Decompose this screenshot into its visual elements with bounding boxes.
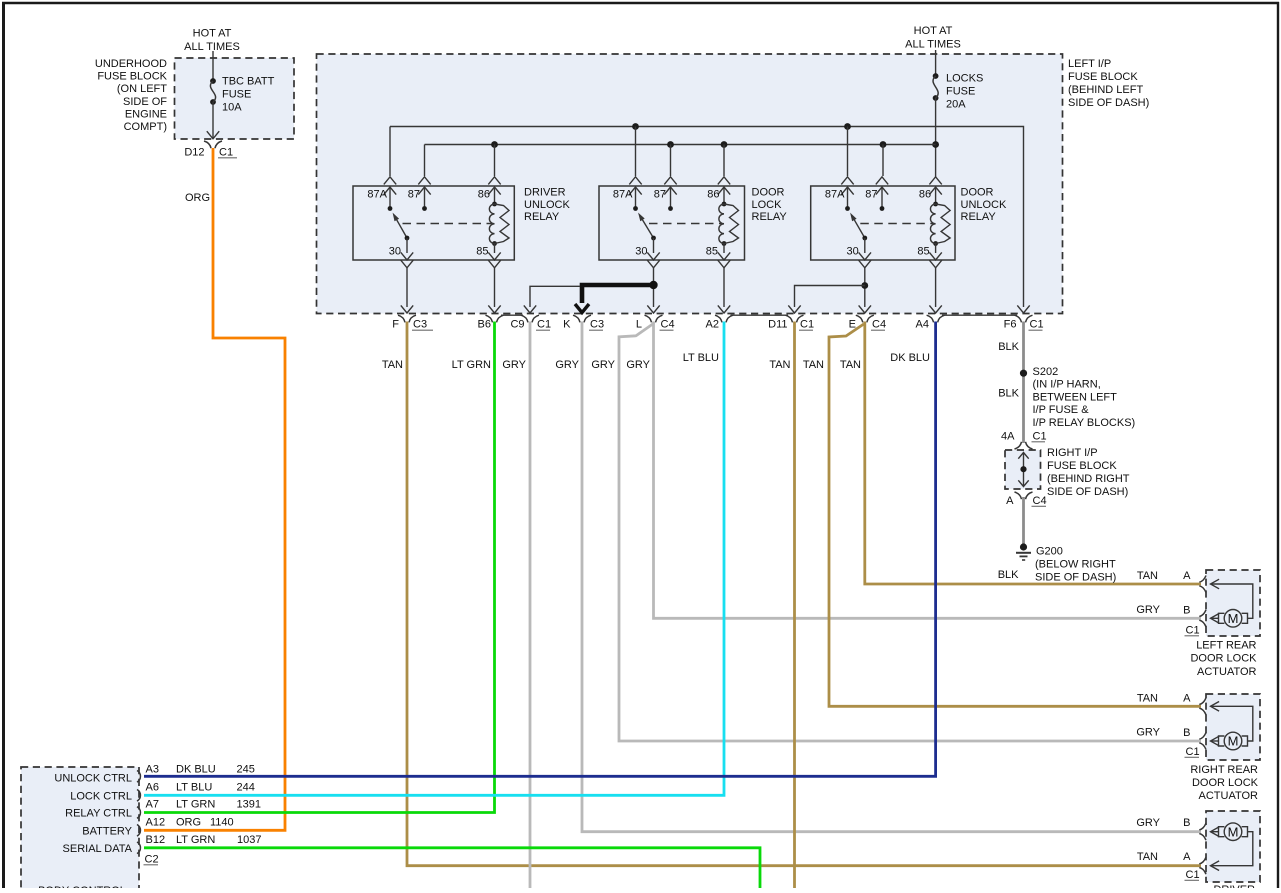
right rear door lock actuator name label [1190,764,1258,802]
svg-text:(BEHIND LEFT: (BEHIND LEFT [1068,84,1143,96]
wire TAN: exit E direct to left rear door lock actuator pin A [865,322,1201,585]
svg-text:GRY: GRY [555,359,579,371]
label: HOT AT ALL TIMES (right) [905,25,961,51]
svg-text:A: A [1183,851,1191,863]
svg-text:GRY: GRY [1136,817,1160,829]
relay K2 DOOR LOCK pin 86 [707,177,730,204]
connector C1 pins B6,C9 (strip) [478,315,552,330]
svg-text:DOOR: DOOR [961,187,994,199]
svg-text:ACTUATOR: ACTUATOR [1199,790,1259,802]
svg-text:FUSE BLOCK: FUSE BLOCK [1068,71,1138,83]
svg-text:A7: A7 [146,799,159,811]
node + wire: B+ rail drop to relay K2 pin 87 [667,141,674,176]
node: 87A bus junction above relay K2 [632,123,639,130]
svg-text:TAN: TAN [1137,851,1158,863]
relay K3 DOOR UNLOCK pin 85 [917,244,941,268]
BCM pin RELAY CTRL A7 [65,799,261,820]
relay K1 DRIVER UNLOCK: box [353,186,514,260]
relay K3 DOOR UNLOCK pin 87 [865,177,888,211]
svg-text:BETWEEN LEFT: BETWEEN LEFT [1033,391,1118,403]
right rear door lock actuator: box [1206,694,1260,760]
relay K2 DOOR LOCK name label [752,187,788,224]
svg-text:TAN: TAN [382,359,403,371]
label: RIGHT I/P FUSE BLOCK (BEHIND RIGHT SIDE OF DASH) [1047,447,1130,498]
right rear door lock actuator motor M [1219,732,1248,750]
left rear door lock actuator connector C1 pin B [1183,604,1206,627]
connector C4 pin A (out of right I/P fuse block) [1006,492,1046,507]
driver actuator label C1 [1185,869,1200,881]
node + wire: B+ rail drop to relay K1 pin 86 [491,141,498,176]
svg-text:B6: B6 [478,319,491,331]
svg-text:K: K [563,319,571,331]
svg-text:SIDE OF DASH): SIDE OF DASH) [1068,97,1149,109]
relay K1 DRIVER UNLOCK pin 87A [367,177,396,211]
svg-text:D11: D11 [768,319,787,331]
svg-text:GRY: GRY [502,359,526,371]
connector C1 pins A4,F6 (strip) [916,315,1044,330]
svg-text:S202: S202 [1033,366,1059,378]
svg-text:DRIVER: DRIVER [524,187,566,199]
svg-text:RELAY: RELAY [961,211,997,223]
svg-text:LOCK: LOCK [752,199,783,211]
svg-text:TAN: TAN [769,359,790,371]
wire BLK: right I/P fuse block to ground G200 [998,497,1024,581]
svg-text:TAN: TAN [1137,570,1158,582]
wire through right I/P fuse block [1018,453,1028,487]
wire LT GRN 1391: exit B6 to BCM RELAY CTRL A7 [144,322,495,813]
svg-text:1140: 1140 [210,817,234,829]
svg-text:DK BLU: DK BLU [890,352,930,364]
left rear door lock actuator name label [1190,640,1257,678]
BCM pin LOCK CTRL A6 [70,782,255,803]
svg-text:C3: C3 [413,319,427,331]
driver door lock actuator: box [1206,811,1260,882]
svg-text:SIDE OF DASH): SIDE OF DASH) [1047,486,1128,498]
svg-text:GRY: GRY [626,359,650,371]
driver actuator wire labels GRY/TAN [1136,817,1160,863]
driver actuator motor M [1219,823,1248,841]
svg-text:A2: A2 [706,319,719,331]
svg-text:F: F [392,319,399,331]
wire: ground rail (87A bus) to connector C1 pin F6 [390,127,1030,314]
wire: battery feed into LOCKS fuse [935,50,937,76]
relay K1 DRIVER UNLOCK coil link (dashed) [403,223,493,225]
wire ORG 1140: underhood fuse D12 to BCM BATTERY A12 [144,148,285,830]
svg-text:C1: C1 [1186,869,1200,881]
svg-text:87: 87 [408,188,420,200]
driver actuator name label (clipped at page bottom) [1213,884,1255,893]
right rear door lock actuator connector C1 pin B [1183,727,1206,750]
svg-text:1391: 1391 [237,799,261,811]
svg-text:ACTUATOR: ACTUATOR [1197,666,1257,678]
label: LEFT I/P FUSE BLOCK (BEHIND LEFT SIDE OF DASH) [1068,58,1149,109]
svg-text:F6: F6 [1004,319,1017,331]
svg-text:FUSE BLOCK: FUSE BLOCK [97,71,167,83]
svg-text:BATTERY: BATTERY [82,826,132,838]
svg-text:86: 86 [919,188,931,200]
svg-text:BLK: BLK [998,569,1019,581]
svg-text:DOOR LOCK: DOOR LOCK [1192,777,1259,789]
label: G200 (BELOW RIGHT SIDE OF DASH) [1035,546,1116,584]
svg-text:85: 85 [917,245,929,257]
svg-text:87A: 87A [825,188,845,200]
relay K3 DOOR UNLOCK: box [811,186,955,260]
svg-text:A3: A3 [146,764,159,776]
svg-text:LT GRN: LT GRN [176,834,215,846]
svg-text:RELAY CTRL: RELAY CTRL [65,808,132,820]
svg-text:D12: D12 [184,147,204,159]
splice S202 [1020,366,1058,378]
svg-text:HOT AT: HOT AT [914,25,953,37]
wire: relay K1 pin 30 to exit F [401,268,413,313]
wire LT GRN 1037: BCM SERIAL DATA B12 (off page bottom) [144,848,760,888]
svg-text:A: A [1183,692,1191,704]
relay K2 DOOR LOCK switch arm (30 to 87A) [638,213,656,241]
wire: fuse output to connector C1 pin D12 [207,102,219,139]
svg-text:C1: C1 [1186,625,1200,637]
label: S202 description [1033,379,1136,429]
underhood fuse block (dashed box) [175,58,295,139]
svg-text:30: 30 [635,245,647,257]
relay K3 DOOR UNLOCK pin 87A [825,177,854,211]
relay K1 DRIVER UNLOCK pin 30 [389,238,413,268]
relay K2 DOOR LOCK coil [719,202,739,246]
svg-text:ORG: ORG [185,192,210,204]
relay K2 DOOR LOCK: box [599,186,745,260]
svg-text:87A: 87A [367,188,387,200]
svg-text:4A: 4A [1001,431,1015,443]
wire DK BLU 245: exit A4 to BCM UNLOCK CTRL A3 [144,322,936,777]
svg-text:20A: 20A [946,99,966,111]
svg-text:FUSE: FUSE [222,89,251,101]
driver actuator connector C1 pin A [1183,851,1206,874]
relay K2 DOOR LOCK pin 30 [635,238,659,268]
node: junction of fuse feed with B+ rail [932,141,939,148]
svg-text:C1: C1 [219,147,233,159]
wire: 87A bus drop to relay K2 pin 87A [635,127,637,177]
svg-text:A: A [1183,570,1191,582]
connector C1 pin D12 [184,141,237,159]
svg-text:C4: C4 [661,319,675,331]
wire LT BLU 244: exit A2 to BCM LOCK CTRL A6 [144,322,724,796]
svg-text:LOCKS: LOCKS [946,73,983,85]
svg-text:BLK: BLK [998,388,1019,400]
svg-text:TAN: TAN [1137,693,1158,705]
relay K1 DRIVER UNLOCK name label [524,187,571,224]
BCM pin UNLOCK CTRL A3 [54,764,254,785]
svg-text:87A: 87A [613,188,633,200]
svg-text:245: 245 [237,764,255,776]
relay K3 DOOR UNLOCK coil [930,202,950,246]
svg-text:UNLOCK CTRL: UNLOCK CTRL [54,773,132,785]
right rear actuator wire labels TAN/GRY [1136,693,1160,739]
svg-text:GRY: GRY [1136,604,1160,616]
connector C3 pin K [563,315,604,330]
svg-text:30: 30 [389,245,401,257]
svg-text:B12: B12 [146,834,166,846]
svg-text:LOCK CTRL: LOCK CTRL [70,791,132,803]
svg-text:G200: G200 [1036,546,1063,558]
svg-text:TAN: TAN [803,359,824,371]
left I/P fuse block (dashed box) [317,54,1063,314]
right rear door lock actuator connector C1 pin A [1183,692,1206,715]
svg-text:RIGHT REAR: RIGHT REAR [1190,764,1258,776]
relay K3 DOOR UNLOCK switch arm (30 to 87A) [850,213,867,241]
svg-text:RELAY: RELAY [752,211,788,223]
svg-text:SERIAL DATA: SERIAL DATA [63,843,133,855]
relay K1 DRIVER UNLOCK pin 87 [408,177,431,211]
wire: relay K2 pin 85 to exit A2 [718,268,730,313]
wire color labels below fuse block [382,352,930,371]
wire: thin branch from exit C9 to thick bar corner [524,286,580,313]
wire: B+ rail drop to relay K1 pin 87 [424,145,426,177]
node + wire: B+ rail drop to relay K3 pin 87 [880,141,887,176]
svg-text:LT GRN: LT GRN [452,359,491,371]
wire: battery feed into TBC BATT fuse [212,51,214,81]
svg-text:(IN I/P HARN,: (IN I/P HARN, [1033,379,1101,391]
wire: branch from K3 pin30 to exit D11 [788,286,865,314]
wire: relay K3 pin 30 to exit E [859,268,871,313]
svg-text:B: B [1183,604,1190,616]
svg-text:A: A [1006,495,1014,507]
svg-text:M: M [1228,734,1239,749]
left rear door lock actuator internal wires [1211,579,1253,623]
svg-text:B: B [1183,817,1190,829]
svg-text:A6: A6 [146,782,159,794]
left rear door lock actuator connector C1 pin A [1183,570,1206,593]
svg-text:I/P RELAY BLOCKS): I/P RELAY BLOCKS) [1033,417,1136,429]
connector C3 pin F [392,315,433,330]
svg-text:RELAY: RELAY [524,211,560,223]
svg-text:M: M [1228,824,1239,839]
svg-text:I/P FUSE &: I/P FUSE & [1033,404,1090,416]
label: HOT AT ALL TIMES (left) [184,28,240,54]
svg-text:244: 244 [237,782,255,794]
svg-text:BLK: BLK [998,341,1019,353]
svg-text:DRIVER: DRIVER [1213,884,1255,888]
svg-text:DK BLU: DK BLU [176,764,216,776]
left rear actuator wire labels TAN/GRY [1136,570,1160,616]
svg-text:ORG: ORG [176,817,201,829]
wire: relay K2 pin 30 to exit L [647,268,659,313]
svg-text:C4: C4 [1033,495,1047,507]
relay K3 DOOR UNLOCK pin 30 [847,238,871,268]
svg-text:DOOR: DOOR [752,187,785,199]
svg-text:C1: C1 [800,319,814,331]
svg-text:86: 86 [478,188,490,200]
svg-text:C1: C1 [537,319,551,331]
svg-text:GRY: GRY [1136,727,1160,739]
svg-text:ALL TIMES: ALL TIMES [905,39,961,51]
label: BLK below S202 [998,388,1019,400]
connector C1 pins A2,D11 (strip) [706,315,815,330]
relay K2 DOOR LOCK pin 87A [613,177,642,211]
svg-text:C1: C1 [1186,746,1200,758]
connector C4 pin E [849,315,886,330]
relay K1 DRIVER UNLOCK pin 85 [476,244,500,268]
svg-text:SIDE OF DASH): SIDE OF DASH) [1035,572,1116,584]
wire: 87A bus drop to relay K1 pin 87A [389,127,391,177]
relay K1 DRIVER UNLOCK coil [489,202,509,246]
driver actuator internal wires [1211,827,1253,871]
svg-text:LT GRN: LT GRN [176,799,215,811]
svg-text:FUSE BLOCK: FUSE BLOCK [1047,460,1117,472]
wire TAN: exit E branch to right rear door lock actuator pin A [829,324,1201,706]
svg-text:87: 87 [865,188,877,200]
svg-text:HOT AT: HOT AT [193,28,232,40]
svg-text:UNLOCK: UNLOCK [524,199,571,211]
svg-text:TBC BATT: TBC BATT [222,76,275,88]
svg-text:TAN: TAN [840,359,861,371]
connector C4 pin L [636,315,675,330]
svg-text:DOOR LOCK: DOOR LOCK [1190,653,1257,665]
svg-text:B: B [1183,727,1190,739]
node: 87A bus junction above relay K3 [844,123,851,130]
svg-text:(ON LEFT: (ON LEFT [117,83,167,95]
svg-text:C3: C3 [590,319,604,331]
connector C1 pin 4A (into right I/P fuse block) [1001,431,1047,450]
svg-text:LEFT REAR: LEFT REAR [1196,640,1256,652]
svg-text:30: 30 [847,245,859,257]
body control module (dashed box, clipped at page bottom) [21,767,139,893]
svg-text:FUSE: FUSE [946,86,975,98]
svg-text:UNLOCK: UNLOCK [961,199,1008,211]
node: thick-bar junction on K2 pin30 wire [649,281,657,289]
fuse: LOCKS FUSE 20A [933,73,984,111]
left rear door lock actuator label C1 [1185,625,1200,637]
BCM connector label C2 [144,854,159,866]
svg-text:LEFT I/P: LEFT I/P [1068,58,1111,70]
wire BLK: exit F6 down to splice S202 [998,322,1023,444]
svg-text:C2: C2 [145,854,159,866]
node + wire: B+ rail drop to relay K2 pin 86 [721,141,728,176]
svg-text:(BELOW RIGHT: (BELOW RIGHT [1035,559,1116,571]
node: branch junction on K3 pin30 wire [861,282,868,289]
left rear door lock actuator: box [1206,570,1260,636]
svg-text:RIGHT I/P: RIGHT I/P [1047,447,1098,459]
relay K1 DRIVER UNLOCK pin 86 [478,177,501,204]
BCM pin SERIAL DATA B12 [63,834,262,855]
relay K3 DOOR UNLOCK coil link (dashed) [860,223,933,225]
fuse: TBC BATT FUSE 10A [210,76,275,114]
wire GRY: exit C9 (off page bottom) [529,322,532,889]
svg-text:C1: C1 [1030,319,1044,331]
svg-text:GRY: GRY [591,359,615,371]
relay K2 DOOR LOCK coil link (dashed) [649,223,722,225]
svg-text:1037: 1037 [237,834,261,846]
right rear door lock actuator label C1 [1185,746,1200,758]
svg-text:COMPT): COMPT) [124,121,167,133]
svg-text:87: 87 [654,188,666,200]
ground G200 [1016,543,1031,560]
wire TAN: exit D11 (off page bottom) [793,322,796,889]
relay K3 DOOR UNLOCK name label [961,187,1008,224]
relay K1 DRIVER UNLOCK switch arm (30 to 87A) [393,213,410,241]
svg-text:(BEHIND RIGHT: (BEHIND RIGHT [1047,473,1130,485]
wire: LOCKS fuse output down to relay K3 pin 86 (crosses upper rail, junction at lower rail) [935,98,937,177]
left rear door lock actuator motor M [1219,610,1248,628]
svg-text:85: 85 [476,245,488,257]
BCM name label (clipped at page bottom) [38,885,126,893]
wire: 87A bus drop to relay K3 pin 87A [847,127,849,177]
right I/P fuse block (dashed box) [1005,450,1041,489]
right rear door lock actuator internal wires [1211,702,1253,746]
BCM pin BATTERY A12 [82,817,233,838]
svg-text:L: L [636,319,642,331]
wire: B+ rail (86/87 bus) [425,144,936,146]
svg-text:ALL TIMES: ALL TIMES [184,41,240,53]
svg-text:C1: C1 [1033,431,1047,443]
wire GRY: exit L branch to right rear door lock actuator pin B [619,324,1201,741]
driver actuator connector C1 pin B [1183,817,1206,840]
svg-text:10A: 10A [222,102,242,114]
svg-text:SIDE OF: SIDE OF [123,96,167,108]
svg-text:M: M [1228,611,1239,626]
svg-text:LT BLU: LT BLU [176,782,212,794]
wire GRY 295: exit K to driver door lock actuator pin B [582,322,1201,832]
wire GRY: exit L direct to left rear door lock actuator pin B [654,322,1202,619]
svg-text:LT BLU: LT BLU [683,352,719,364]
svg-text:A4: A4 [916,319,929,331]
wire: thick black branch to exit K [575,285,654,313]
wire: relay K3 pin 85 to exit A4 [929,268,941,313]
svg-text:85: 85 [706,245,718,257]
label: UNDERHOOD FUSE BLOCK (ON LEFT SIDE OF ENGINE COMPT) [95,58,168,133]
wire TAN 694: exit F to driver door lock actuator pin A [407,322,1201,866]
relay K3 DOOR UNLOCK pin 86 [919,177,942,204]
svg-text:C4: C4 [872,319,886,331]
relay K2 DOOR LOCK pin 87 [654,177,677,211]
svg-text:A12: A12 [146,817,166,829]
svg-text:UNDERHOOD: UNDERHOOD [95,58,167,70]
svg-text:C9: C9 [510,319,524,331]
relay K2 DOOR LOCK pin 85 [706,244,730,268]
wire: relay K1 pin 85 to exit B6 [488,268,500,313]
svg-text:ENGINE: ENGINE [125,108,167,120]
svg-text:86: 86 [707,188,719,200]
